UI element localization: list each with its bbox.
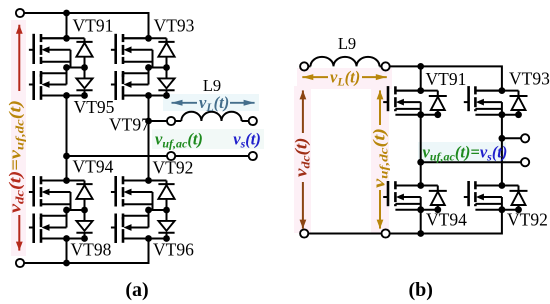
wire: common source bar VT94/VT98 [67,209,85,211]
junction: VT95 drain node right [81,92,88,99]
voltage label: vL(t) arrow (a) [172,100,255,106]
voltage arrow: vdc(t) down-head (a) [16,215,23,251]
diode: VT91 antiparallel diode (b) [429,91,447,115]
wire: left leg spine top (b) [420,66,422,90]
junction: common source node left VT93/VT97 [145,64,152,71]
junction: VT91 source/diode node (b) [434,111,441,118]
diode: VT93 antiparallel diode (b) [510,91,528,115]
diode: VT93 antiparallel diode [158,38,174,67]
wire: bottom DC rail (a) [20,239,149,264]
svg-text:VT93: VT93 [509,69,550,89]
junction: top rail / left leg (b) [417,63,424,70]
wire: VT92 source bar (b) [475,209,518,211]
junction: left leg output tap (b) [417,159,424,166]
junction: top rail / leg1 (a) [63,10,70,17]
wire: VT96 drain bar [123,238,167,240]
terminal: AC output lower (b) [521,158,529,166]
wire: top rail (b) [380,66,502,90]
junction: common source node left VT94/VT98 [63,207,70,214]
junction: common source node right VT91/VT95 [81,64,88,71]
wire: VT93 drain bar [123,37,167,39]
junction: VT91 drain node (b) [417,87,424,94]
transistor VT95 [29,68,67,101]
terminal: DC input - (b) [300,229,308,237]
wire: VT92 drain bar [123,180,167,182]
wire: common source bar VT92/VT96 [149,209,167,211]
svg-text:VT94: VT94 [426,210,467,230]
wire: left leg spine bottom (b) [420,210,422,234]
diode: VT94 antiparallel diode [76,181,92,211]
junction: VT93 source node (b) [499,111,506,118]
terminal: DC+ input (a) [16,9,24,17]
voltage arrow: vdc(t) up-head (a) [16,25,23,91]
diode: VT92 antiparallel diode (b) [510,186,528,210]
junction: bottom rail / leg1 (a) [63,260,70,267]
junction: VT93 source/diode node (b) [515,111,522,118]
wire: leg1 spine middle (a) [66,96,68,181]
svg-text:(b): (b) [408,279,432,301]
transistor VT92 [111,176,153,210]
wire: VT91 source bar (b) [395,114,437,116]
terminal: source upper (a) [249,117,257,125]
transistor VT92 (b) [464,181,502,210]
junction: VT94 source/diode node (b) [434,206,441,213]
wire: VT93 drain bar (b) [475,90,518,92]
wire: VT97 drain bar [123,95,167,97]
diode: VT97 antiparallel diode [158,68,174,96]
svg-text:L9: L9 [338,34,356,53]
transistor VT93 (b) [464,86,502,115]
junction: VT97 drain node left [145,92,152,99]
wire: VT94 drain bar (b) [395,185,437,187]
wire: leg1 spine bottom (a) [66,239,68,264]
svg-text:VT93: VT93 [154,16,195,36]
junction: VT91 source node (b) [417,111,424,118]
svg-text:VT98: VT98 [71,240,112,260]
junction: common source node left VT92/VT96 [145,207,152,214]
junction: VT91 drain node [63,35,70,42]
diode: VT94 antiparallel diode (b) [429,186,447,210]
junction: VT92 source node (b) [499,206,506,213]
transistor VT96 [111,210,149,243]
junction: VT95 drain node left [63,92,70,99]
transistor VT91 [29,34,71,68]
junction: common source node right VT92/VT96 [163,207,170,214]
wire: leg2 tap to inductor (a) [149,120,182,122]
svg-text:VT97: VT97 [109,115,150,135]
terminal: unfolder AC output lower (a) [167,152,175,160]
wire: VT91 drain bar (b) [395,90,437,92]
junction: common source node right VT94/VT98 [81,207,88,214]
wire: VT91 drain bar [41,37,85,39]
wire: bottom rail (b) [304,210,502,234]
svg-text:vL(t): vL(t) [330,68,360,89]
wire: VT93 source bar (b) [475,114,518,116]
terminal: unfolder DC - (b) [382,229,390,237]
svg-text:vdc(t)=vuf,dc(t): vdc(t)=vuf,dc(t) [6,100,27,213]
transistor VT91 (b) [383,86,421,115]
wire: lower AC output (a) [67,155,253,157]
terminal: AC output upper (b) [521,134,529,142]
wire: common source bar VT91/VT95 [67,67,85,69]
wire: right leg tap to AC terminal upper (b) [502,137,525,139]
junction: VT94 drain node [63,177,70,184]
junction: VT92 drain node (b) [499,182,506,189]
wire: left leg spine middle (b) [420,115,422,186]
junction: VT97 drain node right [163,92,170,99]
svg-text:VT91: VT91 [73,16,114,36]
terminal: DC input + (b) [300,62,308,70]
transistor VT94 [29,176,71,210]
wire: top wire inductor to bridge (b) [304,65,310,67]
svg-text:VT92: VT92 [507,210,548,230]
decorative tint band (ignore) [11,20,506,256]
junction: VT94 drain node (b) [417,182,424,189]
terminal: unfolder AC output upper (a) [167,117,175,125]
wire: VT94 drain bar [41,180,85,182]
transistor VT93 [111,34,153,68]
wire: common source bar VT93/VT97 [149,67,167,69]
transistor VT98 [29,210,67,243]
junction: VT94 source node (b) [417,206,424,213]
junction: right leg output tap (b) [499,135,506,142]
wire: leg1 spine top (a) [66,13,68,38]
diode: VT95 antiparallel diode [76,68,92,96]
voltage label: vL(t) arrow (b) [302,74,387,80]
svg-text:VT96: VT96 [153,240,194,260]
inductor L9 (a) [181,112,241,121]
diode: VT92 antiparallel diode [158,181,174,211]
junction: VT96 drain node left [145,235,152,242]
svg-text:vL(t): vL(t) [199,93,229,114]
inductor L9 (b) [311,57,380,67]
terminal: DC- input (a) [16,259,24,267]
junction: leg2 inductor tap node (a) [145,118,152,125]
terminal: unfolder DC + (b) [382,62,390,70]
transistor VT97 [111,68,149,101]
junction: VT92 source/diode node (b) [515,206,522,213]
junction: common source node right VT93/VT97 [163,64,170,71]
svg-text:vs(t): vs(t) [233,130,261,151]
wire: VT94 source bar (b) [395,209,437,211]
svg-text:VT91: VT91 [426,69,467,89]
diode: VT96 antiparallel diode [158,210,174,239]
diode: VT91 antiparallel diode [76,38,92,67]
junction: bottom rail / left leg (b) [417,230,424,237]
wire: top DC rail (a) [20,13,149,38]
wire: left leg tap to AC terminal lower (b) [421,161,525,163]
voltage arrow: vuf,dc(t) (b) [377,90,384,228]
junction: common source node left VT91/VT95 [63,64,70,71]
junction: VT93 drain node [145,35,152,42]
svg-text:(a): (a) [125,279,148,301]
terminal: source lower (a) [249,152,257,160]
junction: VT96 drain node right [163,235,170,242]
svg-text:VT94: VT94 [73,157,114,177]
wire: VT92 drain bar (b) [475,185,518,187]
voltage arrow: vdc(t) (b) [300,90,307,228]
wire: inductor to AC terminal (a) [242,120,253,122]
junction: VT93 drain node (b) [499,87,506,94]
junction: leg1 / AC output node (a) [63,153,70,160]
wire: VT95 drain bar [41,95,85,97]
junction: VT92 drain node [145,177,152,184]
junction: VT98 drain node left [63,235,70,242]
diode: VT98 antiparallel diode [76,210,92,239]
wire: VT98 drain bar [41,238,85,240]
junction: VT98 drain node right [81,235,88,242]
wire: leg2 spine middle (a) [148,96,150,181]
transistor VT94 (b) [383,181,421,210]
wire: right leg spine middle (b) [501,115,503,186]
